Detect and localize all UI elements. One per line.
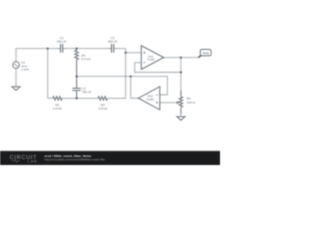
svg-text:0.8 kΩ: 0.8 kΩ — [53, 106, 63, 110]
svg-text:0.4 kΩ: 0.4 kΩ — [81, 57, 91, 61]
pot wiper arrow lead — [173, 102, 177, 104]
wire vertical input branch — [47, 49, 49, 99]
node feedback tap — [180, 71, 182, 73]
wire V1 bottom to ground — [15, 68, 17, 86]
labels — [21, 36, 195, 111]
wire pot bottom to ground — [180, 114, 182, 117]
resistor R6 — [76, 49, 78, 51]
wire top rail left — [16, 48, 57, 50]
resistor R2 — [98, 97, 107, 101]
svg-text:TL081: TL081 — [146, 97, 154, 101]
wire output flag tail — [198, 55, 201, 57]
wire bootstrap to OA2 output — [131, 76, 139, 98]
wire top rail middle — [67, 48, 108, 50]
node bootstrap right — [130, 75, 132, 77]
svg-text:http∶//circuitlab.com/c/ea7e56: http∶//circuitlab.com/c/ea7e56/60hz-notc… — [45, 158, 106, 162]
wire bottom rail right — [108, 53, 126, 99]
svg-text:TL081: TL081 — [147, 58, 155, 62]
capacitor C3 — [76, 76, 78, 88]
footer bar — [0, 151, 220, 165]
svg-text:LAB: LAB — [28, 159, 38, 164]
output flag Vout — [200, 49, 211, 55]
potentiometer R5 — [180, 90, 182, 96]
wire OA1 output — [164, 57, 199, 59]
wire OA2 plus to pot wiper — [160, 102, 173, 104]
svg-text:390 nF: 390 nF — [57, 39, 67, 43]
node dots — [47, 47, 183, 99]
wire bottom rail left — [48, 97, 53, 99]
wire OA1 feedback — [135, 63, 181, 73]
node OA1 plus — [124, 51, 126, 53]
wire bootstrap rail — [77, 75, 131, 77]
svg-text:1 kHz: 1 kHz — [21, 67, 29, 71]
wire bottom rail middle — [62, 97, 98, 99]
capacitor C2 — [108, 48, 118, 50]
resistor R1 — [53, 97, 62, 101]
svg-text:100 Ω: 100 Ω — [187, 100, 196, 104]
wire output down to pot — [180, 58, 182, 91]
ground (V1) — [12, 87, 20, 91]
op-amp U1 OA1 — [141, 46, 163, 70]
wire V1 top to top rail — [15, 49, 17, 62]
voltage source V1 — [13, 62, 20, 69]
wire OA2 feedback top — [131, 76, 168, 94]
node C3 bottom — [75, 97, 77, 99]
ground (pot) — [177, 117, 185, 121]
wire top rail right to OA1 plus — [118, 49, 141, 53]
svg-text:Vout: Vout — [203, 51, 209, 55]
node bootstrap left — [75, 75, 77, 77]
node output — [180, 56, 182, 58]
node R6 top — [75, 47, 77, 49]
node input branch — [47, 47, 49, 49]
svg-text:390 nF: 390 nF — [108, 39, 118, 43]
svg-text:0.8 kΩ: 0.8 kΩ — [98, 106, 108, 110]
capacitor C1 — [57, 48, 67, 50]
svg-text:780 nF: 780 nF — [82, 90, 92, 94]
op-amp U2 OA2 — [138, 87, 159, 110]
